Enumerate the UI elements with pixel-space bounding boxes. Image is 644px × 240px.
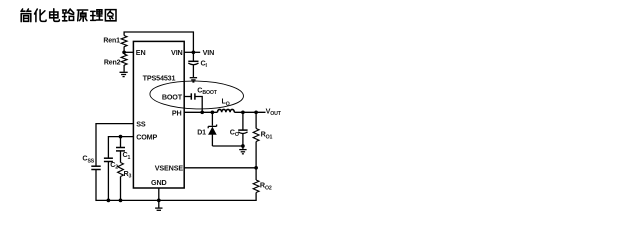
node COMP/C1 junction (119, 135, 123, 139)
svg-text:VIN: VIN (203, 48, 215, 57)
路 (63, 9, 74, 21)
原 (77, 10, 87, 21)
resistor R3 (118, 163, 124, 177)
diode D1 (schottky) (208, 125, 216, 135)
wire Ren1 bottom to EN node (123, 47, 125, 53)
wire BOOT stub (184, 96, 191, 98)
capacitor Co (238, 130, 247, 133)
wires (96, 32, 266, 208)
wire D1 cathode (211, 112, 213, 125)
wire Ro1 top (255, 112, 257, 128)
wire R3 bottom to rail (120, 177, 122, 201)
node PH/CBOOT junction (200, 110, 204, 114)
wire EN node to Ren2 (123, 52, 125, 54)
wire Ren2 bottom to ground (123, 65, 125, 72)
wire CBOOT to PH node (195, 97, 202, 113)
wire VIN node to Ci (192, 52, 194, 61)
node Co junction (241, 110, 245, 114)
化 (35, 9, 47, 22)
wire Ro2 top (255, 168, 257, 180)
title 简化电路原理图 (drawn glyphs) (21, 9, 116, 22)
svg-text:GND: GND (151, 178, 167, 187)
wire inductor to VOUT (234, 111, 265, 113)
op-amp U1 TPS54531 body (133, 41, 184, 188)
电 (50, 9, 60, 22)
capacitor Css (91, 166, 100, 169)
wire EN stub (124, 51, 133, 53)
capacitor C1 (116, 148, 125, 151)
ground (below GND pin) (155, 208, 162, 212)
svg-text:Ren2: Ren2 (104, 60, 121, 67)
resistor Ren2 (121, 54, 127, 65)
node EN junction (122, 50, 126, 54)
svg-text:VSENSE: VSENSE (155, 164, 184, 173)
resistor Ren1 (121, 36, 127, 47)
wire C2 bottom to rail (107, 162, 109, 201)
svg-text:TPS54531: TPS54531 (143, 74, 176, 83)
wire D1 to Co bottom (212, 145, 243, 147)
ground (below Ren2) (120, 72, 128, 76)
svg-text:BOOT: BOOT (162, 92, 183, 101)
图 (105, 10, 116, 21)
inductor Lo (218, 109, 235, 112)
node D1 junction (211, 110, 215, 114)
resistor Ro1 (253, 129, 259, 142)
svg-text:PH: PH (172, 108, 182, 117)
node VIN junction (192, 50, 196, 54)
capacitor C2 (104, 158, 113, 161)
node C2 rail junction (107, 199, 111, 203)
svg-text:VIN: VIN (171, 48, 183, 57)
capacitor Ci (188, 61, 198, 64)
wire Ro1 bottom to VSENSE node (255, 142, 257, 168)
wire GND node to ground (158, 200, 160, 207)
wire Ci to ground (192, 65, 194, 77)
wire Co top (242, 112, 244, 130)
resistor Ro2 (253, 180, 259, 193)
wire C1 to R3 (120, 151, 122, 163)
node GND rail junction (157, 199, 161, 203)
ground (below D1/Co) (239, 150, 246, 154)
capacitor CBOOT (191, 93, 195, 99)
wire COMP node to C1 (120, 137, 122, 148)
wire D1 anode down (211, 134, 213, 146)
wire Co node to ground (242, 146, 244, 149)
ground (below Ci) (190, 78, 197, 82)
wire PH stub to inductor (184, 111, 217, 113)
svg-text:COMP: COMP (136, 133, 157, 142)
wire VIN node to label (193, 51, 200, 53)
wire Css bottom to rail (95, 170, 97, 202)
wire GND stub (158, 188, 160, 200)
wire VSENSE (184, 167, 256, 169)
wire COMP to C2 (108, 137, 133, 159)
node Ro1 junction (254, 110, 258, 114)
node Co ground junction (241, 144, 245, 148)
简 (21, 9, 31, 22)
wire SS to Css (96, 124, 133, 167)
wire top (Ren1 top over to VIN column) (124, 32, 193, 52)
理 (91, 10, 103, 21)
svg-text:SS: SS (136, 120, 146, 129)
node R3 rail junction (119, 199, 123, 203)
svg-text:Ren1: Ren1 (103, 38, 120, 45)
wire VIN stub (184, 51, 193, 53)
wire Co bottom (242, 134, 244, 146)
svg-text:EN: EN (136, 48, 146, 57)
annotation ellipse around BOOT (150, 80, 244, 110)
wire ground rail (96, 193, 256, 201)
node VSENSE junction (254, 166, 258, 170)
svg-text:D1: D1 (197, 130, 206, 137)
